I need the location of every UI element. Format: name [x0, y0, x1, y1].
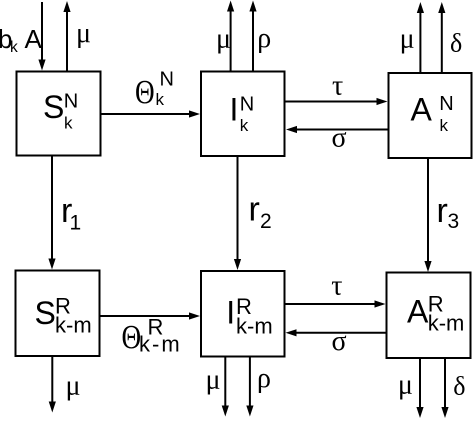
svg-text:I: I — [230, 92, 239, 128]
svg-text:μ: μ — [400, 24, 415, 55]
svg-text:k: k — [240, 116, 249, 135]
svg-text:k-m: k-m — [428, 311, 465, 336]
svg-text:N: N — [160, 69, 174, 91]
svg-text:3: 3 — [448, 210, 460, 233]
svg-text:2: 2 — [260, 210, 272, 233]
svg-text:k: k — [440, 116, 449, 135]
svg-text:k: k — [64, 113, 73, 132]
svg-text:N: N — [439, 93, 453, 115]
svg-text:R: R — [148, 315, 164, 340]
svg-text:σ: σ — [332, 326, 347, 357]
svg-text:A: A — [407, 294, 429, 330]
svg-text:S: S — [43, 89, 64, 125]
svg-text:k-m: k-m — [236, 314, 273, 339]
svg-text:μ: μ — [216, 24, 231, 55]
svg-text:I: I — [226, 295, 235, 331]
svg-text:S: S — [35, 295, 56, 331]
svg-text:μ: μ — [206, 365, 221, 396]
svg-text:r: r — [437, 192, 448, 230]
svg-text:r: r — [249, 191, 260, 229]
svg-text:ρ: ρ — [257, 363, 271, 394]
svg-text:N: N — [240, 94, 254, 116]
svg-text:μ: μ — [76, 18, 91, 49]
svg-text:τ: τ — [331, 270, 342, 301]
svg-text:N: N — [64, 91, 78, 113]
svg-text:A: A — [25, 24, 43, 54]
svg-text:A: A — [411, 92, 433, 128]
svg-text:Θ: Θ — [135, 73, 155, 111]
svg-text:μ: μ — [398, 369, 413, 400]
svg-text:δ: δ — [450, 29, 462, 58]
svg-text:k: k — [10, 39, 18, 56]
svg-text:ρ: ρ — [257, 23, 271, 54]
svg-text:1: 1 — [70, 211, 82, 234]
svg-text:δ: δ — [453, 371, 465, 400]
svg-text:k: k — [156, 90, 165, 109]
svg-text:σ: σ — [332, 123, 347, 154]
svg-text:μ: μ — [66, 371, 81, 402]
svg-text:τ: τ — [332, 70, 343, 101]
svg-text:k-m: k-m — [55, 312, 92, 337]
